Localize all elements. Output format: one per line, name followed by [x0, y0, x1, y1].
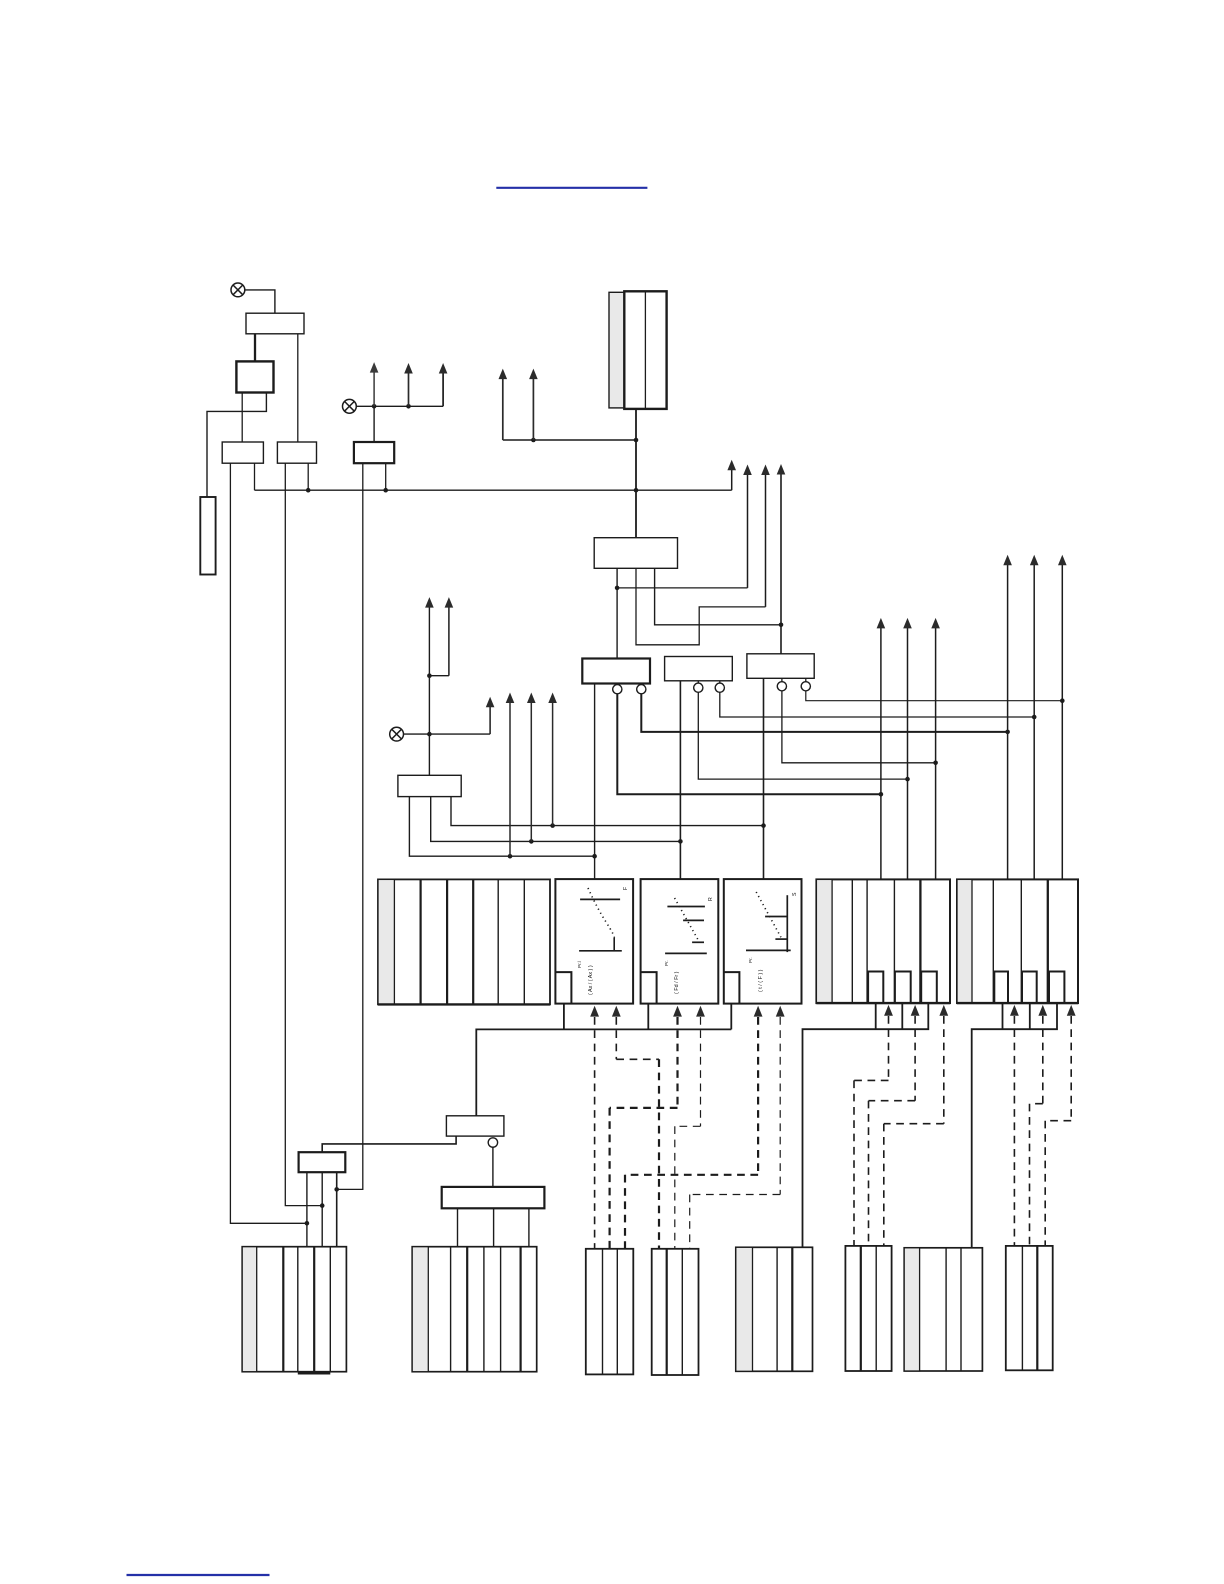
svg-text:( Ax / ( Ax ) ): ( Ax / ( Ax ) ): [588, 965, 594, 995]
svg-text:Pr.: Pr.: [748, 957, 753, 963]
svg-text:Pr.: Pr.: [664, 960, 669, 966]
svg-text:Pr.l: Pr.l: [577, 961, 582, 968]
svg-text:S: S: [792, 892, 798, 896]
svg-text:F: F: [623, 887, 629, 890]
svg-text:R: R: [708, 897, 714, 901]
svg-text:( t / ( F ) ): ( t / ( F ) ): [758, 969, 764, 992]
svg-text:( Fd / Fr ): ( Fd / Fr ): [674, 971, 680, 994]
